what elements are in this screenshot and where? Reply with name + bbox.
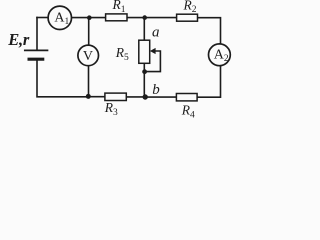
resistor R1 box: [106, 14, 127, 21]
rheostat R5 box: [139, 40, 150, 63]
battery E,r short thick plate: [29, 58, 43, 61]
resistor R4 box: [176, 94, 197, 101]
wire battery to top-left corner: [36, 18, 38, 50]
wire R2 to top-right corner down to A2: [198, 18, 221, 44]
wire V-branch top (junction to voltmeter): [88, 18, 90, 45]
wire top-left horizontal (corner to A1): [37, 17, 48, 19]
svg-text:V: V: [83, 49, 93, 64]
voltmeter V circle: [78, 45, 99, 66]
junction dot top (R5 branch): [142, 15, 147, 20]
wire A2 to bottom-right corner to R4: [197, 66, 220, 98]
junction dot node b: [143, 94, 148, 99]
resistor R2 box: [177, 14, 198, 21]
rheostat R5 wiper arrowhead: [150, 48, 156, 54]
battery E,r long plate: [25, 49, 48, 51]
ammeter A1 circle: [48, 6, 71, 29]
svg-text:E,r: E,r: [7, 30, 30, 49]
wire bottom-left to battery (junction to corner, up): [37, 60, 88, 97]
resistor R3 box: [105, 93, 126, 100]
svg-text:b: b: [152, 82, 160, 98]
junction dot top (V branch): [87, 15, 92, 20]
wire R3 to V-branch junction: [88, 96, 105, 98]
wire V-branch bottom (voltmeter to junction): [88, 66, 90, 97]
ammeter A2 circle: [209, 44, 231, 66]
svg-text:a: a: [152, 24, 160, 40]
wire node a branch (top junction to R5): [143, 18, 145, 40]
wire node b to R3: [126, 96, 145, 98]
wire R5 bottom to node b: [143, 63, 145, 96]
wire A1 to R1 (through junction): [72, 17, 106, 19]
wire R5 wiper lead (right and down to main wire): [145, 51, 160, 72]
junction dot bottom (V branch): [86, 94, 91, 99]
wire R4 to node b: [145, 96, 176, 98]
wire R1 to R2 (through junction): [127, 17, 177, 19]
junction dot R5 wiper: [142, 69, 147, 74]
